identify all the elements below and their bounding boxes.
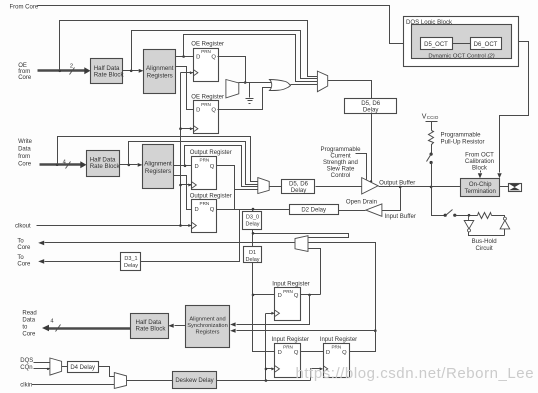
arrow into alignment sync 1 xyxy=(230,322,236,326)
wire OE HDR to alignment registers xyxy=(123,70,139,72)
write alignment registers block xyxy=(143,145,174,189)
wire write bypass 3 xyxy=(185,146,258,187)
svg-text:OE Register: OE Register xyxy=(191,94,224,100)
node input clk branch xyxy=(265,379,268,382)
svg-text:To: To xyxy=(17,238,24,244)
wire CQn input xyxy=(34,368,50,370)
wire deskew output xyxy=(217,380,311,382)
svg-text:Synchronization: Synchronization xyxy=(187,323,227,329)
wire OE alignment out2 to OE register 2 D xyxy=(176,67,194,110)
delay block D6_OCT xyxy=(471,38,502,50)
svg-text:D2 Delay: D2 Delay xyxy=(301,207,326,213)
svg-text:Core: Core xyxy=(18,75,32,81)
svg-text:https://blog.csdn.net/Reborn_L: https://blog.csdn.net/Reborn_Lee xyxy=(296,365,535,382)
on-chip termination block xyxy=(461,179,500,197)
svg-text:Output Buffer: Output Buffer xyxy=(379,180,415,187)
pad symbol xyxy=(509,184,522,192)
arrow into write alignment registers xyxy=(138,163,143,167)
DQS Logic Block inner gray box xyxy=(412,25,512,59)
deskew delay block xyxy=(173,372,217,389)
output register 1 flip-flop xyxy=(192,157,217,190)
svg-text:D6_OCT: D6_OCT xyxy=(474,42,498,48)
svg-text:D5_OCT: D5_OCT xyxy=(424,42,448,48)
wire OE bypass 3 xyxy=(184,35,318,82)
wire mux bottom input from input register 1 Q xyxy=(309,249,321,295)
delay block D4 xyxy=(68,362,99,373)
OR gate U3 xyxy=(270,80,291,91)
wire D2 line to D3_0 xyxy=(252,210,254,212)
svg-text:Control: Control xyxy=(331,172,351,179)
svg-text:Rate Block: Rate Block xyxy=(90,163,121,170)
svg-text:Input Buffer: Input Buffer xyxy=(385,213,416,220)
svg-text:DQS: DQS xyxy=(20,358,33,364)
delay block D5_OCT xyxy=(421,38,453,50)
wire D5,D6 delay to output buffer enable xyxy=(371,113,373,182)
arrow Read Data to Core xyxy=(42,325,49,332)
delay block D5,D6 Delay (data) xyxy=(282,180,315,194)
resistor R2 bus-hold xyxy=(478,213,492,219)
node pad line to sync fork xyxy=(374,329,377,332)
node enable join xyxy=(370,180,372,182)
svg-text:from: from xyxy=(18,69,30,75)
node CQn select xyxy=(47,368,49,370)
bus width slash 4 (read) xyxy=(56,325,61,332)
wire from-core to DQS logic block xyxy=(38,6,421,44)
OE register 2 flip-flop xyxy=(194,101,219,134)
wire clk to input register 3 xyxy=(311,369,321,381)
svg-text:PRN: PRN xyxy=(200,157,210,162)
wire OE mux to OR gate xyxy=(239,82,272,84)
svg-text:Q: Q xyxy=(211,107,216,113)
node input register D fork xyxy=(252,294,255,297)
wire clkin xyxy=(32,384,115,386)
wire pad net xyxy=(379,186,461,188)
svg-text:Delay: Delay xyxy=(245,257,259,263)
svg-text:D3_0: D3_0 xyxy=(246,214,259,220)
wire D2 output / D3 branch to To Core 2 xyxy=(141,210,240,262)
wire mux input from pad-node line xyxy=(309,243,376,331)
svg-text:Q: Q xyxy=(342,350,347,356)
svg-text:OE Register: OE Register xyxy=(191,42,224,48)
node OE bus fork xyxy=(59,70,62,73)
wire resistor to switch xyxy=(431,146,433,154)
wire termination to pad xyxy=(500,186,509,188)
wire output register2 Q / D2 line xyxy=(217,209,290,211)
node clk branch 2 xyxy=(265,368,268,371)
svg-text:CQn: CQn xyxy=(20,365,32,371)
svg-text:Output Register: Output Register xyxy=(190,194,232,200)
svg-text:Deskew Delay: Deskew Delay xyxy=(175,378,213,384)
wire OCT calibration arrow xyxy=(480,171,482,173)
wire input register 3 Q to node xyxy=(350,331,376,352)
svg-text:from: from xyxy=(18,154,30,160)
svg-text:PRN: PRN xyxy=(331,345,341,350)
node D2 line junction xyxy=(252,208,255,211)
switch S1 (pull-up) xyxy=(430,153,433,156)
wire clkout xyxy=(37,225,192,227)
svg-text:Alignment and: Alignment and xyxy=(189,317,225,323)
input register 3 flip-flop xyxy=(324,344,350,378)
input register 2 flip-flop xyxy=(275,344,301,378)
svg-text:Registers: Registers xyxy=(147,73,173,80)
output register 2 flip-flop xyxy=(192,200,217,233)
svg-text:Alignment: Alignment xyxy=(144,161,172,168)
wire bus-hold bottom rail xyxy=(469,232,505,236)
switch S2 (bus-hold) xyxy=(444,214,447,217)
node input buffer tap xyxy=(399,186,402,189)
arrow into write half data rate block xyxy=(80,161,86,168)
arrow into on-chip termination (calibration) xyxy=(478,173,482,178)
wire D3_0 to D1 and mux xyxy=(253,230,349,247)
wire write bypass 1 xyxy=(58,137,258,182)
arrow To Core 2 xyxy=(38,259,44,264)
svg-text:Pull-Up Resistor: Pull-Up Resistor xyxy=(441,139,485,146)
bus width slash 4 xyxy=(66,162,71,169)
node OE register D fork xyxy=(182,55,185,58)
svg-text:Input Register: Input Register xyxy=(320,337,357,343)
inverter U7 (bus-hold down) xyxy=(468,216,470,221)
svg-text:Q: Q xyxy=(294,293,299,299)
bus write data from core xyxy=(40,163,82,165)
wire DQS mux to D4 delay xyxy=(62,366,68,368)
svg-text:Registers: Registers xyxy=(195,330,219,336)
wire write HDR to alignment registers xyxy=(120,164,138,166)
svg-text:CCIO: CCIO xyxy=(427,115,439,120)
svg-text:Alignment: Alignment xyxy=(146,65,174,72)
svg-text:Block: Block xyxy=(472,164,488,171)
svg-text:Q: Q xyxy=(211,55,216,61)
svg-text:Q: Q xyxy=(210,164,215,170)
mux U2 (OE 2:1) xyxy=(226,80,239,98)
node D3_0 output fork xyxy=(252,232,255,235)
delay block D2 Delay xyxy=(290,205,339,215)
wire To Core 1 xyxy=(45,242,295,244)
wire clk to input registers 1,2 xyxy=(266,314,273,381)
wire alignment sync to read HDR xyxy=(175,325,186,327)
alignment and synchronization registers block xyxy=(186,306,230,348)
svg-text:2: 2 xyxy=(70,63,73,69)
svg-text:Core: Core xyxy=(17,261,31,267)
wire D5,D6 delay 2 to output buffer xyxy=(316,186,362,188)
OE alignment registers block xyxy=(144,50,176,94)
svg-text:D4 Delay: D4 Delay xyxy=(70,365,95,371)
wire write alignment out2 to output register 2 D xyxy=(174,176,192,210)
bus OE from core xyxy=(38,69,85,71)
wire input register1 Q xyxy=(301,294,321,296)
wire node to alignment sync xyxy=(237,330,376,332)
svg-text:PRN: PRN xyxy=(201,102,211,107)
svg-text:Dynamic OCT Control (2): Dynamic OCT Control (2) xyxy=(428,53,494,59)
arrow into read half data rate block xyxy=(168,324,174,328)
svg-text:Core: Core xyxy=(18,162,32,168)
delay block D5,D6 Delay (OE) xyxy=(345,99,397,114)
svg-text:Write: Write xyxy=(18,139,33,145)
input buffer U6 xyxy=(366,204,382,216)
wire DQS block to on-chip termination xyxy=(500,42,529,173)
wire D3_1 to core xyxy=(45,261,121,263)
wire pad net to bus-hold xyxy=(432,187,446,216)
svg-text:Open Drain: Open Drain xyxy=(346,199,377,206)
svg-text:PRN: PRN xyxy=(283,289,293,294)
svg-text:clkin: clkin xyxy=(20,383,32,389)
wire input reg1 Q to alignment sync xyxy=(237,295,310,325)
svg-text:D: D xyxy=(195,164,199,170)
wire clk mux to deskew delay xyxy=(127,380,173,382)
svg-text:Read: Read xyxy=(22,311,36,317)
node pull-up tap xyxy=(430,186,433,189)
read half data rate block xyxy=(131,314,169,339)
delay block D3_1 xyxy=(121,253,141,271)
svg-text:Core: Core xyxy=(22,332,36,338)
mux U11 (clk) xyxy=(114,373,126,389)
resistor R1 programmable pull-up xyxy=(429,131,434,146)
wire OE mux output to D5,D6 delay xyxy=(328,81,372,99)
mux U4 (output path mux) xyxy=(258,178,269,194)
svg-text:D: D xyxy=(326,350,330,356)
write half data rate block xyxy=(87,151,120,177)
svg-text:Programmable: Programmable xyxy=(441,132,482,139)
svg-text:PRN: PRN xyxy=(200,201,210,206)
mux U10 (DQS/CQn) xyxy=(50,358,62,375)
svg-text:To: To xyxy=(17,255,24,261)
node OE HDR output fork xyxy=(130,70,133,73)
delay block D1 xyxy=(244,247,262,263)
svg-text:Delay: Delay xyxy=(363,107,380,114)
svg-text:Delay: Delay xyxy=(245,221,259,227)
arrow into OE alignment registers xyxy=(139,69,144,73)
svg-text:PRN: PRN xyxy=(283,345,293,350)
OE register 1 flip-flop xyxy=(194,49,219,82)
svg-text:Q: Q xyxy=(210,207,215,213)
node input register1 Q fork xyxy=(308,294,311,297)
svg-text:D3_1: D3_1 xyxy=(124,256,137,262)
wire to input register 2 D xyxy=(253,295,275,352)
svg-text:Core: Core xyxy=(17,245,31,251)
svg-text:Rate Block: Rate Block xyxy=(94,71,125,78)
OE half data rate block xyxy=(91,59,123,84)
svg-text:Input Register: Input Register xyxy=(272,337,309,343)
svg-text:Data: Data xyxy=(18,147,31,153)
wire switch to pad net xyxy=(431,163,433,187)
svg-text:clkout: clkout xyxy=(15,224,31,230)
svg-text:D: D xyxy=(196,55,200,61)
wire OE bypass 2 xyxy=(132,31,318,79)
svg-text:Data: Data xyxy=(22,318,35,324)
node clk junction 3 xyxy=(179,224,182,227)
svg-text:Input Register: Input Register xyxy=(272,282,309,288)
ground stem xyxy=(249,83,251,98)
wire D5_OCT to D6_OCT xyxy=(453,43,471,45)
wire write bypass 2 xyxy=(129,142,258,185)
svg-text:Bus-Hold: Bus-Hold xyxy=(472,238,497,245)
delay block D3_0 xyxy=(243,212,262,230)
wire to input buffer xyxy=(382,187,401,211)
svg-text:Rate Block: Rate Block xyxy=(136,326,167,333)
node output register D fork xyxy=(184,165,187,168)
wire OE alignment out1 to OE register 1 D xyxy=(176,56,194,58)
wire OE bypass 1 xyxy=(60,21,318,77)
arrow To Core 1 xyxy=(38,241,44,246)
pointer line current strength xyxy=(356,154,367,180)
svg-text:From Core: From Core xyxy=(10,5,39,11)
svg-text:D: D xyxy=(278,350,282,356)
svg-text:to: to xyxy=(22,325,28,331)
wire bus-hold top rail xyxy=(455,215,478,217)
svg-text:Circuit: Circuit xyxy=(475,245,493,252)
wire resistor to inverter 2 xyxy=(492,216,505,218)
svg-text:D: D xyxy=(278,293,282,299)
wire VCCIO to resistor xyxy=(431,122,433,131)
ground symbol xyxy=(246,98,254,100)
arrow into alignment sync 2 xyxy=(230,329,236,333)
wire OR output to OE mux xyxy=(291,84,318,86)
svg-text:D: D xyxy=(195,207,199,213)
node bus-hold inverter tap xyxy=(468,214,471,217)
wire DQS input xyxy=(34,362,50,364)
svg-text:D1: D1 xyxy=(249,250,256,256)
node write HDR output fork xyxy=(128,164,131,167)
svg-text:OE: OE xyxy=(18,63,27,69)
arrow into on-chip termination (from DQS block) xyxy=(497,173,501,178)
wire output register1 Q to output mux xyxy=(217,166,258,210)
output buffer U5 xyxy=(362,178,378,194)
bus width slash 2 xyxy=(70,68,75,75)
bus read data to core xyxy=(49,327,131,329)
input register 1 flip-flop xyxy=(275,288,301,321)
wire OE register2 Q to OR gate xyxy=(218,88,272,110)
node write bus fork xyxy=(56,163,59,166)
wire D1 to input register 1 D xyxy=(253,263,275,295)
svg-text:Q: Q xyxy=(294,350,299,356)
node OE reg1 Q join xyxy=(244,81,247,84)
wire input buffer to D2 delay xyxy=(339,210,366,212)
wire output mux to D5,D6 delay 2 xyxy=(270,186,282,188)
mux U9 (input path mux) xyxy=(295,236,308,252)
svg-text:Delay: Delay xyxy=(291,187,308,194)
svg-text:Registers: Registers xyxy=(145,168,171,175)
svg-text:Delay: Delay xyxy=(124,263,138,269)
node clk junction 2 xyxy=(179,184,182,187)
node clk junction 1 xyxy=(179,127,182,130)
arrow into OE half data rate block xyxy=(84,67,90,74)
wire OE register1 Q down xyxy=(218,57,246,83)
wire D4 delay to clk mux xyxy=(99,367,115,377)
wire input register2 Q to register3 D xyxy=(301,351,324,353)
wire clock vertical to registers xyxy=(181,73,194,226)
svg-text:Termination: Termination xyxy=(464,188,496,195)
svg-text:D: D xyxy=(196,107,200,113)
inverter U8 (bus-hold up) xyxy=(503,217,506,220)
mux U1 (OE output mux) xyxy=(317,71,327,92)
DQS Logic Block outer box xyxy=(404,17,519,67)
wire write alignment out1 to output register 1 D xyxy=(174,165,192,167)
svg-text:Output Register: Output Register xyxy=(190,150,232,156)
svg-text:PRN: PRN xyxy=(201,49,211,54)
